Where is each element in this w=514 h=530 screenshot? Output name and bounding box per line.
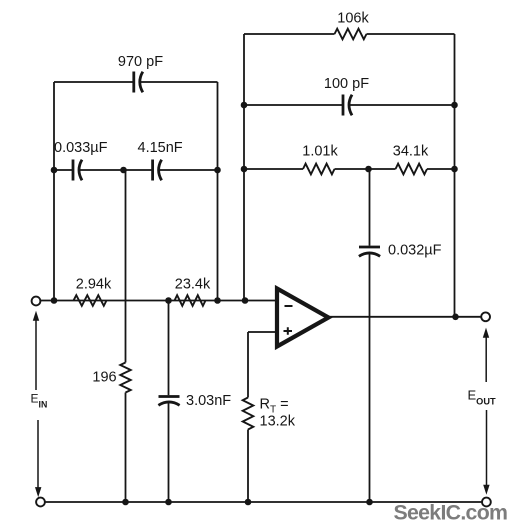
svg-text:EIN: EIN [31,392,48,410]
svg-text:2.94k: 2.94k [76,277,112,293]
svg-text:EOUT: EOUT [468,388,496,407]
svg-text:106k: 106k [337,11,369,27]
svg-text:0.033µF: 0.033µF [54,140,108,156]
svg-text:100 pF: 100 pF [324,76,369,92]
svg-text:1.01k: 1.01k [302,144,338,160]
svg-text:13.2k: 13.2k [260,414,296,430]
svg-text:4.15nF: 4.15nF [138,140,183,156]
svg-text:196: 196 [92,370,116,386]
svg-text:SeekIC.com: SeekIC.com [394,501,508,525]
svg-text:34.1k: 34.1k [393,144,429,160]
svg-text:0.032µF: 0.032µF [388,243,442,259]
svg-text:23.4k: 23.4k [175,277,211,293]
svg-text:970 pF: 970 pF [118,54,163,70]
svg-text:3.03nF: 3.03nF [186,393,231,409]
